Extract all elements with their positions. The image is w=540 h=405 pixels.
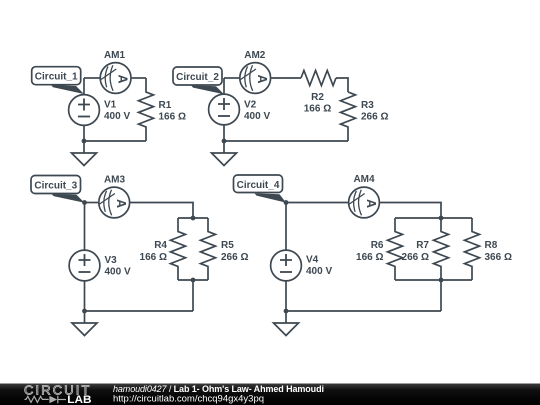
wire C1 bottom (84, 140, 146, 142)
voltage source V1 (69, 95, 100, 126)
svg-text:R7: R7 (416, 240, 429, 251)
wire C4 V4 bottom leg (285, 282, 287, 312)
svg-text:400 V: 400 V (244, 111, 270, 122)
wire C3 V3 bottom leg (84, 282, 86, 312)
svg-text:166 Ω: 166 Ω (356, 252, 383, 263)
svg-text:Circuit_3: Circuit_3 (34, 181, 77, 192)
ammeter AM3 (99, 187, 130, 218)
ammeter AM1 (100, 63, 131, 94)
svg-text:V4: V4 (306, 255, 319, 266)
wire C4 top from node to ammeter (286, 202, 348, 204)
wire C3 top from node to ammeter (85, 202, 99, 204)
wire C3 parallel top bar (178, 217, 208, 219)
svg-text:166 Ω: 166 Ω (304, 103, 331, 114)
wire C2 V2 bottom leg (223, 126, 225, 142)
flag Circuit_1 (32, 67, 84, 94)
svg-text:A: A (116, 74, 130, 83)
flag Circuit_3 (31, 176, 85, 203)
svg-text:166 Ω: 166 Ω (140, 252, 167, 263)
svg-text:400 V: 400 V (104, 111, 130, 122)
svg-text:400 V: 400 V (306, 266, 332, 277)
svg-text:http://circuitlab.com/chcq94gx: http://circuitlab.com/chcq94gx4y3pq (113, 393, 264, 404)
svg-text:A: A (114, 199, 128, 208)
voltage source V3 (69, 250, 100, 281)
junction node C4 bottom (284, 309, 289, 314)
wire C2 ammeter to R2 (271, 77, 301, 79)
flag Circuit_2 (173, 67, 224, 94)
svg-text:266 Ω: 266 Ω (221, 252, 248, 263)
resistor R7 (434, 218, 449, 280)
svg-text:Circuit_1: Circuit_1 (35, 72, 78, 83)
wire C4 ammeter to corner and down (380, 203, 441, 219)
wire C1 top from node to ammeter (84, 77, 100, 79)
svg-text:166 Ω: 166 Ω (159, 112, 186, 123)
voltage source V4 (271, 250, 302, 281)
ground C2 (212, 141, 237, 166)
resistor R4 (171, 218, 186, 280)
svg-text:V2: V2 (244, 100, 257, 111)
svg-text:400 V: 400 V (105, 267, 131, 278)
wire C3 down from parallel to bottom (192, 280, 194, 311)
wire C3 bottom (85, 310, 194, 312)
svg-text:A: A (255, 74, 269, 83)
ammeter AM2 (240, 63, 271, 94)
resistor R5 (201, 218, 216, 280)
wire C4 parallel bottom bar (395, 279, 472, 281)
svg-text:R4: R4 (154, 240, 167, 251)
junction node C4 top (284, 200, 289, 205)
wire C1 ammeter to R1 corner (132, 77, 146, 79)
wire C2 R2 to corner and down (336, 78, 348, 92)
flag Circuit_4 (234, 175, 287, 203)
svg-text:AM2: AM2 (244, 50, 266, 61)
wire C4 bottom (286, 310, 441, 312)
ground C4 (274, 311, 299, 336)
wire C4 down from parallel to bottom (440, 280, 442, 311)
junction node C3 parallel top (191, 216, 196, 221)
svg-text:Circuit_4: Circuit_4 (237, 180, 280, 191)
svg-text:R8: R8 (485, 240, 498, 251)
voltage source V2 (209, 94, 240, 125)
resistor R2 (301, 71, 336, 86)
junction node C3 bottom (82, 309, 87, 314)
logo resistor-diode glyph (25, 396, 67, 404)
svg-text:Circuit_2: Circuit_2 (176, 72, 219, 83)
ground C3 (72, 311, 97, 336)
wire C3 parallel bottom bar (178, 279, 208, 281)
junction node C4 parallel bottom (439, 278, 444, 283)
svg-text:R1: R1 (159, 100, 172, 111)
svg-text:AM3: AM3 (104, 174, 126, 185)
wire C4 parallel top bar (395, 217, 472, 219)
ground C1 (72, 141, 97, 166)
svg-text:LAB: LAB (67, 394, 92, 405)
wire C4 V4 top leg (285, 203, 287, 250)
svg-text:AM1: AM1 (104, 50, 126, 61)
svg-text:A: A (364, 199, 378, 208)
ammeter AM4 (349, 187, 380, 218)
junction node C1 bottom (82, 139, 87, 144)
svg-text:R5: R5 (221, 240, 234, 251)
junction node C2 bottom (222, 139, 227, 144)
svg-text:R2: R2 (311, 92, 324, 103)
svg-text:266 Ω: 266 Ω (402, 252, 429, 263)
wire C3 V3 top leg (84, 203, 86, 250)
wire C3 ammeter to corner and down (130, 203, 193, 219)
svg-text:AM4: AM4 (353, 174, 375, 185)
svg-text:V3: V3 (105, 255, 118, 266)
svg-text:V1: V1 (104, 100, 117, 111)
resistor R3 (341, 92, 356, 141)
junction node C4 parallel top (439, 216, 444, 221)
svg-text:366 Ω: 366 Ω (485, 252, 512, 263)
wire C1 V1 bottom leg (83, 126, 85, 141)
wire C2 top from node to ammeter (224, 77, 239, 79)
junction node C3 parallel bottom (191, 278, 196, 283)
resistor R1 (139, 78, 154, 141)
svg-text:R6: R6 (371, 240, 384, 251)
resistor R8 (465, 218, 480, 280)
svg-text:R3: R3 (361, 100, 374, 111)
resistor R6 (388, 218, 403, 280)
wire C2 bottom (224, 140, 348, 142)
wire C2 V2 top leg (223, 78, 225, 94)
wire C1 V1 top leg (83, 78, 85, 94)
svg-text:266 Ω: 266 Ω (361, 112, 388, 123)
junction node C3 top (82, 200, 87, 205)
